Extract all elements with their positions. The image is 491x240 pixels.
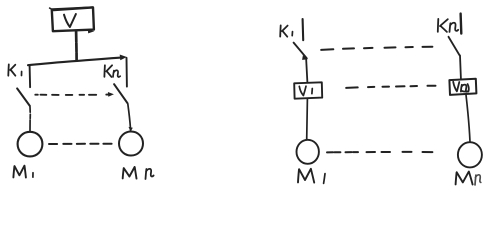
wire V1 to motor M1 (right) — [306, 99, 309, 140]
motor M1 circle — [18, 132, 43, 157]
arrowhead at right end of bus — [120, 55, 127, 61]
switch Kn blade (right) — [449, 37, 460, 55]
label K1 — [8, 64, 15, 75]
switch K1 blade — [17, 88, 30, 106]
drive box Vn — [449, 79, 476, 95]
switch Kn blade — [114, 84, 127, 103]
label M1 (right) — [298, 169, 314, 183]
motor Mn circle (right) — [458, 142, 482, 167]
dashed link K1 to Kn (right) — [321, 47, 432, 50]
box V (supply source) — [52, 7, 94, 31]
label M1 — [13, 166, 26, 178]
switch K1 blade (right) — [294, 43, 307, 59]
label Kn (right) — [438, 19, 448, 32]
dashed link between switches K1 and Kn — [35, 94, 96, 96]
switch K1 top terminal stub (right) — [302, 19, 305, 40]
arrowhead at K1 blade tip (right) — [302, 55, 308, 60]
label K1 (right) — [280, 25, 287, 36]
dashed link V1 to Vn — [346, 86, 435, 88]
bus wire — [28, 57, 123, 65]
wire Vn to motor Mn (right) — [466, 95, 470, 142]
arrowhead on dashed link — [106, 94, 109, 96]
label Kn — [104, 65, 112, 77]
switch K1 upper terminal wire — [29, 66, 32, 88]
switch Kn upper terminal wire — [126, 58, 128, 87]
wire Kn to box Vn — [459, 55, 462, 78]
label V — [64, 14, 76, 27]
label V1 — [299, 86, 306, 95]
wire Kn to motor Mn — [128, 104, 131, 131]
motor Mn circle — [119, 132, 143, 156]
label Mn (right) — [456, 172, 473, 185]
label Mn — [123, 167, 137, 179]
wire K1 to motor M1 — [29, 107, 31, 131]
dashed link M1 to Mn (right) — [327, 151, 432, 154]
motor M1 circle (right) — [297, 140, 319, 164]
wire K1 to box V1 — [306, 60, 307, 83]
switch Kn top terminal stub (right) — [459, 14, 462, 34]
drive box V1 — [294, 82, 322, 98]
arrowhead above motor Mn — [129, 127, 133, 132]
dashed link between motors M1 and Mn — [49, 143, 112, 145]
wire stem from V box to bus — [75, 31, 78, 60]
label Vn — [453, 82, 459, 92]
